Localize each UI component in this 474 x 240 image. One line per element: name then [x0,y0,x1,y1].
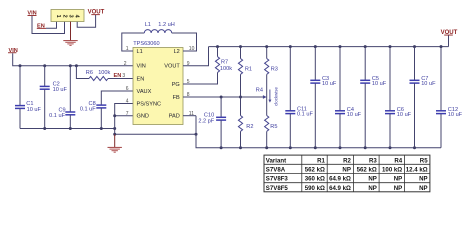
svg-text:R6: R6 [86,70,93,76]
svg-text:L1: L1 [145,22,151,28]
svg-text:VAUX: VAUX [137,89,152,95]
svg-text:10 uF: 10 uF [53,87,68,93]
net label VIN (connector) [27,10,36,16]
svg-text:10 uF: 10 uF [448,112,463,118]
wire PS/SYNC and GND pins to ground column [115,104,133,135]
junction dots on VIN rail [19,64,78,67]
svg-text:100k: 100k [220,66,232,72]
capacitor C10 [198,97,226,148]
svg-text:2.2 pF: 2.2 pF [198,118,214,124]
connector 4-pin header [51,10,84,22]
IC pin names right [164,49,180,120]
svg-text:3: 3 [68,15,74,18]
svg-text:R4: R4 [256,87,263,93]
resistor R5 [265,97,278,148]
svg-text:12.4 kΩ: 12.4 kΩ [406,167,428,174]
svg-text:L1: L1 [137,49,143,55]
svg-text:64.9 kΩ: 64.9 kΩ [329,176,351,183]
svg-text:NP: NP [419,176,427,183]
svg-text:10 uF: 10 uF [322,81,337,87]
resistor R2 [238,97,253,148]
svg-text:10 uF: 10 uF [27,107,42,113]
svg-text:NP: NP [394,176,402,183]
left bottom ground rail [20,128,115,130]
svg-text:7: 7 [126,111,129,117]
svg-text:6: 6 [126,86,129,92]
svg-text:L2: L2 [174,49,180,55]
wire to ground symbol (main) [114,134,116,147]
ground symbol (main) [108,147,122,152]
capacitor C8 [80,91,133,129]
svg-text:S7V8F3: S7V8F3 [266,176,289,183]
svg-text:PG: PG [172,82,180,88]
svg-text:VIN: VIN [137,64,146,70]
wire PAD pin 11 [183,115,196,117]
net label EN (connector) [37,23,46,29]
wire FB pin 8 net [183,96,263,98]
potentiometer R4 wiper arrow [256,87,267,99]
wire VIN label to connector pin 2 [32,16,65,34]
capacitor C9 [49,66,75,129]
svg-text:Variant: Variant [266,157,286,164]
svg-text:R1: R1 [245,66,252,72]
svg-text:10 uF: 10 uF [347,112,362,118]
svg-text:S7V8A: S7V8A [266,167,286,174]
svg-text:R3: R3 [271,66,278,72]
svg-text:360 kΩ: 360 kΩ [305,176,325,183]
resistor R7 [183,47,232,84]
svg-text:0.1 uF: 0.1 uF [49,113,65,119]
bottom ground rail [196,116,441,148]
svg-text:FB: FB [173,95,180,101]
inductor L1 coil [144,30,171,33]
svg-text:EN: EN [114,73,122,79]
svg-text:R5: R5 [420,157,428,164]
svg-text:GND: GND [137,114,149,120]
net label VIN (rail) [8,48,18,54]
svg-text:10 uF: 10 uF [397,112,412,118]
wire VOUT pin 9 to top rail [183,47,209,66]
svg-text:10 uF: 10 uF [421,81,436,87]
ground symbol (connector) [63,41,77,46]
junction dots on ground stub rail [113,133,197,136]
svg-text:590 kΩ: 590 kΩ [305,185,325,192]
svg-text:R4: R4 [394,157,402,164]
svg-text:NP: NP [342,167,350,174]
capacitor C6 [385,47,412,148]
svg-text:NP: NP [368,185,376,192]
svg-text:1.2 uH: 1.2 uH [158,22,174,28]
inductor L1 wire from pin 1 [122,33,145,51]
capacitor C1 [15,66,41,129]
top VOUT rail [209,46,449,48]
capacitor C2 [40,66,68,129]
svg-text:562 kΩ: 562 kΩ [305,167,325,174]
svg-text:PAD: PAD [169,114,180,120]
svg-text:64.9 kΩ: 64.9 kΩ [329,185,351,192]
svg-text:NP: NP [419,185,427,192]
IC pin numbers right [187,46,195,117]
capacitor C3 [310,47,337,148]
svg-text:R1: R1 [317,157,325,164]
svg-text:TPS63060: TPS63060 [133,41,159,47]
wire EN label to connector pin 1 [46,22,57,29]
inductor L1 label [145,22,175,28]
IC pin names left [137,49,162,120]
wire connector pin 3 to ground [70,22,72,41]
svg-text:R5: R5 [270,124,277,130]
IC pin numbers left [122,46,128,117]
annotation clockwise arrow [268,87,278,106]
svg-text:R3: R3 [369,157,377,164]
svg-text:4: 4 [126,99,129,105]
svg-text:1: 1 [55,15,61,18]
IC U1 TPS63060 buck-boost regulator [133,41,183,124]
resistor R1 [238,47,252,97]
svg-text:R2: R2 [343,157,351,164]
svg-text:0.1 uF: 0.1 uF [297,112,313,118]
wire VOUT label to connector pin 4 [77,15,95,27]
capacitor C4 [335,47,362,148]
svg-text:PS/SYNC: PS/SYNC [137,102,162,108]
capacitor C7 [410,47,437,148]
svg-text:100 kΩ: 100 kΩ [382,167,402,174]
svg-text:R2: R2 [246,124,253,130]
resistor R3 [265,47,278,97]
junction dot GND pin [113,114,116,117]
svg-text:0.1 uF: 0.1 uF [80,106,96,112]
inductor L1 wire to pin 10 [172,33,197,51]
svg-text:2: 2 [62,15,68,18]
svg-text:NP: NP [368,176,376,183]
ground stub rail to PAD column [115,133,196,135]
net label VOUT (rail) [441,30,458,46]
capacitor C5 [360,47,387,148]
capacitor C12 [436,47,463,148]
variant table [264,155,430,192]
svg-text:100k: 100k [98,70,110,76]
svg-text:3: 3 [122,73,125,79]
net label VOUT (connector) [88,10,105,16]
svg-text:NP: NP [394,185,402,192]
junction dots on top rail [216,45,443,48]
resistor R6 [76,66,133,81]
svg-text:EN: EN [137,77,145,83]
svg-text:clockwise: clockwise [273,87,278,106]
junction dots on bottom rail [220,146,416,149]
junction dots on left ground rail [43,127,116,130]
svg-text:4: 4 [74,15,80,18]
svg-text:2: 2 [124,61,127,67]
svg-text:S7V8F5: S7V8F5 [266,185,289,192]
svg-text:10 uF: 10 uF [372,81,387,87]
svg-text:562 kΩ: 562 kΩ [357,167,377,174]
junction dots on FB net [220,96,242,99]
svg-text:VOUT: VOUT [164,64,180,70]
wire VIN rail [13,53,133,65]
capacitor C11 [285,47,313,148]
svg-text:R7: R7 [221,59,228,65]
